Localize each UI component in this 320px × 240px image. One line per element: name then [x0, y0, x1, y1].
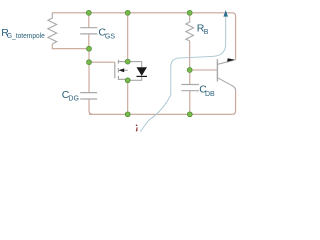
wire CDG bottom corner — [89, 99, 92, 114]
svg-text:B: B — [204, 29, 209, 36]
wire bottom rail — [89, 113, 232, 115]
node source — [125, 78, 130, 83]
wire top rail — [52, 13, 235, 16]
wire right upper (to collector) — [235, 16, 237, 60]
wire CDG vertical — [88, 62, 90, 92]
diode D_body triangle — [137, 67, 148, 76]
wire RB column top stub — [189, 13, 191, 20]
wire node B to gate — [89, 61, 115, 63]
wire CDB top stub — [189, 70, 191, 85]
mosfet Q1 channel segments — [118, 60, 127, 81]
svg-text:DB: DB — [205, 91, 215, 98]
diode D_body wires — [128, 62, 142, 81]
node top mid (drain column/top rail) — [125, 10, 130, 15]
wire CGS bottom stub — [88, 34, 90, 49]
node A (R/CGS bottom) — [87, 46, 92, 51]
transistor Q2 base bar — [216, 59, 218, 81]
wire RB bottom to base node — [189, 41, 191, 70]
node bottom left (source column/bottom rail) — [125, 112, 130, 117]
capacitor C_DG — [80, 93, 97, 99]
resistor R_G_totempole — [48, 13, 57, 44]
node top right (RB/top rail) — [187, 10, 192, 15]
svg-text:G_totempole: G_totempole — [7, 33, 45, 40]
node top left (CGS/top rail) — [86, 10, 91, 15]
wire CGS top stub — [88, 13, 90, 28]
transistor Q2 arrow — [227, 58, 235, 62]
capacitor C_GS — [80, 28, 97, 34]
current arrowhead — [223, 10, 228, 17]
diode D_body cathode bar — [137, 75, 148, 77]
wire right lower (emitter to bottom) — [232, 91, 235, 115]
wire source column (mosfet to bottom rail) — [127, 80, 129, 114]
capacitor C_DB — [181, 85, 199, 91]
mosfet Q1 body arrow — [119, 68, 125, 72]
node B (gate/CDG) — [87, 60, 92, 65]
node bottom right (CDB/bottom rail) — [187, 112, 192, 117]
mosfet Q1 gate — [114, 62, 116, 78]
transistor Q2 emitter lead — [218, 78, 236, 91]
wire drain column (top node to mosfet) — [127, 13, 129, 62]
resistor R_B — [186, 20, 194, 41]
wire resistor bottom to node A — [52, 44, 89, 49]
svg-text:GS: GS — [105, 33, 115, 40]
node drain — [125, 59, 130, 64]
transistor Q2 collector lead — [218, 60, 236, 65]
current path i (blue swoosh) — [140, 17, 225, 132]
label i — [136, 124, 138, 131]
wire base node to BJT base — [190, 69, 218, 71]
svg-text:DG: DG — [68, 96, 79, 103]
wire node A to node B — [88, 49, 90, 63]
node base (RB/CDB/base) — [187, 68, 192, 73]
wire CDB bottom stub — [189, 91, 191, 115]
